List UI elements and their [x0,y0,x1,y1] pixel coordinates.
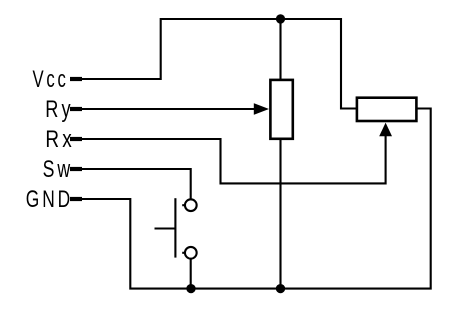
svg-text:Ry: Ry [45,96,73,123]
svg-text:GND: GND [26,186,73,213]
svg-text:Sw: Sw [43,156,74,183]
svg-text:Rx: Rx [45,126,75,153]
svg-text:Vcc: Vcc [33,66,69,93]
